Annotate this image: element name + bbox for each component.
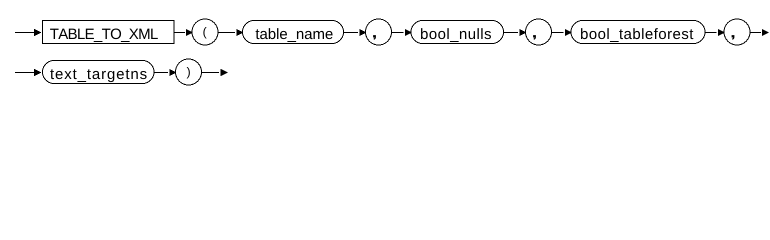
wire exit row 2	[202, 72, 220, 74]
arrowhead into bool_nulls	[405, 29, 412, 36]
wire entry row 2	[15, 72, 36, 74]
stadium bool_nulls	[411, 21, 504, 44]
wire ( to table_name	[218, 32, 235, 34]
stadium bool_tableforest	[571, 21, 705, 44]
circle comma 3	[724, 19, 750, 45]
stadium text_targetns	[43, 61, 155, 84]
wire text_targetns to )	[154, 72, 168, 74]
wire bool_nulls to comma 2	[504, 32, 519, 34]
wire box to (	[174, 32, 185, 34]
arrowhead into )	[170, 69, 177, 76]
circle comma 2	[526, 19, 552, 45]
circle comma 1	[366, 19, 392, 45]
wire table_name to ,	[344, 32, 359, 34]
arrowhead into comma 1	[360, 29, 367, 36]
wire comma to bool_nulls	[392, 32, 404, 34]
arrowhead into table_name	[236, 29, 243, 36]
circle (	[192, 19, 218, 45]
arrowhead into comma 3	[718, 29, 725, 36]
wire bool_tableforest to comma 3	[705, 32, 717, 34]
stadium table_name	[243, 21, 344, 44]
wire comma 2 to bool_tableforest	[552, 32, 564, 34]
box TABLE_TO_XML	[43, 21, 175, 44]
arrowhead into comma 2	[520, 29, 527, 36]
arrowhead exit row 1	[762, 29, 769, 36]
wire exit row 1	[750, 32, 761, 34]
arrowhead exit row 2	[221, 69, 228, 76]
arrowhead into (	[186, 29, 193, 36]
arrowhead into bool_tableforest	[565, 29, 572, 36]
arrowhead into TABLE_TO_XML	[34, 29, 41, 36]
circle )	[176, 59, 202, 85]
wire entry row 1	[15, 32, 36, 34]
arrowhead into text_targetns	[34, 69, 41, 76]
